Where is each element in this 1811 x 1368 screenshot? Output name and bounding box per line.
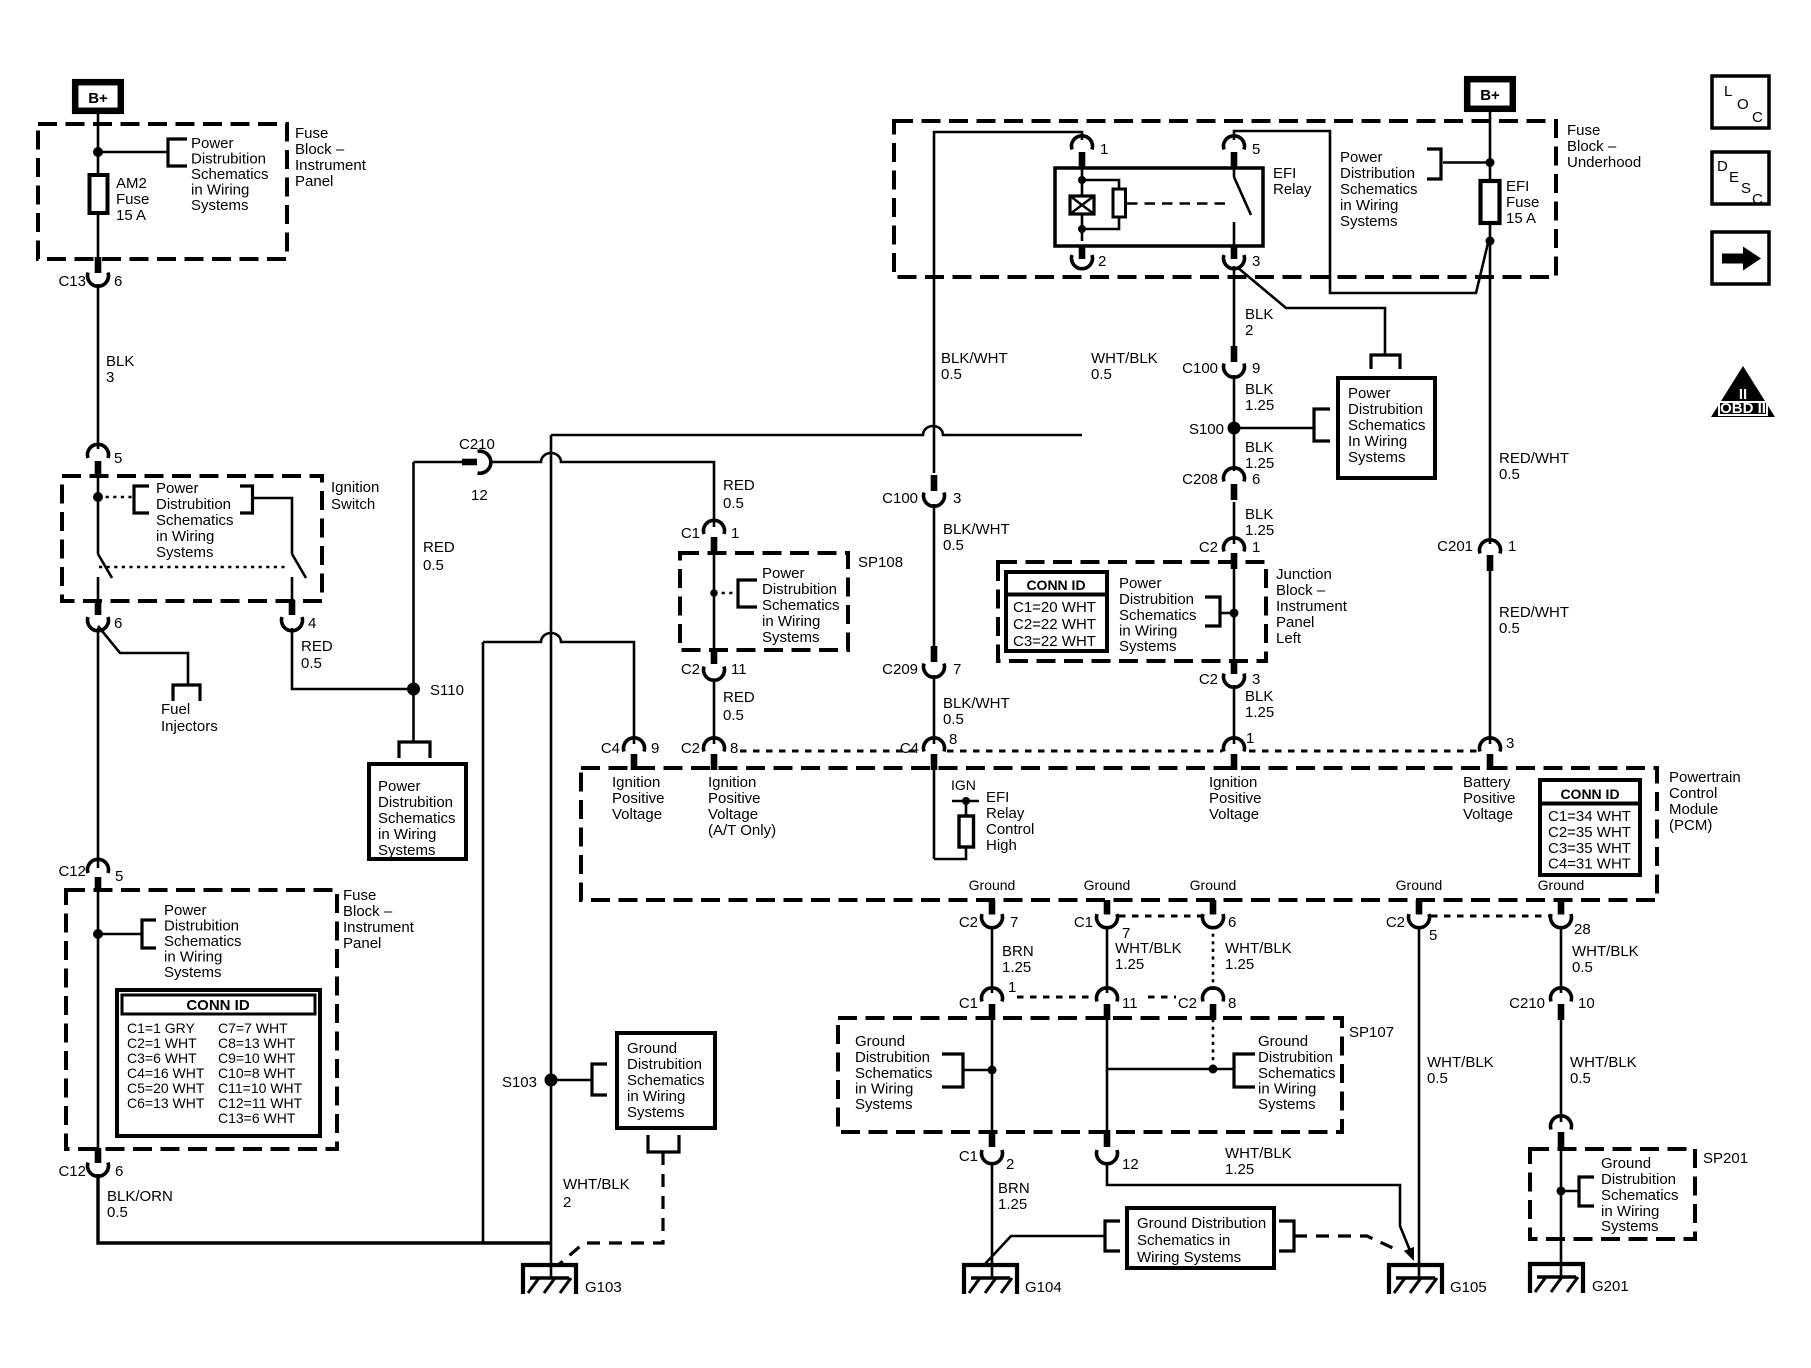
svg-text:Schematics: Schematics	[855, 1065, 933, 1082]
svg-text:EFI: EFI	[986, 789, 1009, 806]
connector tie line	[947, 750, 1222, 753]
svg-text:C2: C2	[959, 914, 978, 931]
svg-text:1.25: 1.25	[1245, 704, 1274, 721]
svg-text:28: 28	[1574, 921, 1591, 938]
connector C2 pin 1 (junction block)	[1199, 538, 1261, 569]
svg-text:C210: C210	[459, 436, 495, 453]
svg-text:Instrument: Instrument	[343, 919, 415, 936]
label: EFI Relay	[1273, 165, 1312, 198]
label: Junction Block - Instrument Panel Left	[1276, 566, 1348, 647]
connector C1 pin 2 (SP107 out)	[959, 1130, 1015, 1173]
wire B+ to fuse block	[97, 113, 100, 152]
svg-text:BLK/WHT: BLK/WHT	[943, 521, 1010, 538]
svg-text:Systems: Systems	[156, 544, 214, 561]
svg-text:0.5: 0.5	[941, 366, 962, 383]
svg-text:Systems: Systems	[1258, 1096, 1316, 1113]
connector pin 6 (ignition switch out)	[88, 600, 123, 632]
connector C2 pin 11 (SP108 out)	[681, 649, 747, 680]
wire WHT/BLK 0.5	[1560, 1020, 1563, 1122]
svg-text:1.25: 1.25	[1115, 956, 1144, 973]
svg-text:RED: RED	[723, 689, 755, 706]
OBD II emblem	[1711, 366, 1775, 417]
svg-text:1: 1	[731, 525, 739, 542]
svg-text:C3=22 WHT: C3=22 WHT	[1013, 633, 1096, 650]
svg-text:15 A: 15 A	[116, 207, 146, 224]
svg-text:BLK/WHT: BLK/WHT	[943, 695, 1010, 712]
connector tie line (SP107 row)	[1017, 996, 1092, 999]
svg-text:1: 1	[1252, 539, 1260, 556]
svg-text:Systems: Systems	[1340, 213, 1398, 230]
node in SP108	[710, 589, 718, 597]
svg-text:High: High	[986, 837, 1017, 854]
svg-text:BLK/ORN: BLK/ORN	[107, 1188, 173, 1205]
svg-text:Voltage: Voltage	[612, 806, 662, 823]
svg-text:EFI: EFI	[1506, 178, 1529, 195]
svg-text:Schematics: Schematics	[1119, 607, 1197, 624]
powertrain control module dashed box	[581, 768, 1657, 900]
connector tie line (ground row)	[1119, 915, 1201, 918]
dotted wire (right leg inside SP107)	[1212, 1019, 1215, 1069]
svg-text:WHT/BLK: WHT/BLK	[1225, 940, 1292, 957]
svg-text:Ignition: Ignition	[331, 479, 379, 496]
svg-text:C210: C210	[1509, 995, 1545, 1012]
svg-text:C3=6 WHT: C3=6 WHT	[127, 1050, 197, 1066]
svg-text:C4: C4	[601, 740, 620, 757]
svg-text:BLK: BLK	[1245, 381, 1273, 398]
svg-text:E: E	[1729, 169, 1739, 186]
svg-text:1.25: 1.25	[1002, 959, 1031, 976]
label: Fuel Injectors	[161, 701, 218, 735]
splice S103	[545, 1074, 558, 1087]
wire pin 12 to G105 with arrow	[1107, 1162, 1411, 1253]
svg-text:BLK: BLK	[1245, 506, 1273, 523]
label: Ignition Positive Voltage (A/T Only) (C2-8)	[708, 774, 776, 839]
svg-text:Systems: Systems	[191, 197, 249, 214]
node inside ignition switch	[93, 492, 103, 502]
node: EFI fuse top junction	[1486, 158, 1495, 167]
wire BLK 1.25	[1233, 502, 1236, 544]
wire node to bracket	[1220, 612, 1234, 615]
CONN ID table (PCM)	[1540, 780, 1640, 875]
svg-text:Control: Control	[1669, 785, 1717, 802]
reference bracket (S100)	[1314, 409, 1330, 441]
svg-text:5: 5	[1429, 927, 1437, 944]
svg-text:C208: C208	[1182, 471, 1218, 488]
svg-text:1.25: 1.25	[1245, 455, 1274, 472]
svg-text:C2: C2	[681, 661, 700, 678]
svg-text:Module: Module	[1669, 801, 1718, 818]
connector tie line (ground row right)	[1431, 915, 1549, 918]
connector pin 5 into ignition switch	[88, 444, 123, 477]
reference box: Ground Distrubition Schematics (S103)	[617, 1033, 715, 1128]
wire top feed to EFI relay pin 2 (hop over BLK/WHT wire)	[551, 426, 1082, 435]
reference box: Ground Distribution Schematics (bottom)	[1127, 1208, 1274, 1268]
wire BLK/WHT 0.5	[933, 675, 936, 744]
svg-text:C5=20 WHT: C5=20 WHT	[127, 1080, 205, 1096]
wire bracket to right switch	[253, 498, 293, 554]
connector relay pin 3	[1224, 245, 1261, 270]
svg-text:C2: C2	[1386, 914, 1405, 931]
svg-text:Power: Power	[1340, 149, 1383, 166]
svg-text:3: 3	[1252, 671, 1260, 688]
svg-text:L: L	[1724, 83, 1732, 100]
svg-text:RED/WHT: RED/WHT	[1499, 604, 1569, 621]
wire BRN 1.25	[991, 926, 994, 993]
svg-text:11: 11	[731, 661, 747, 678]
fuse block - underhood dashed box	[894, 121, 1556, 277]
node inside fuse block	[93, 929, 103, 939]
connector C2 pin 3 (junction block out)	[1199, 660, 1261, 688]
fuse block - instrument panel (bottom) dashed box	[66, 890, 337, 1149]
svg-text:C2: C2	[681, 740, 700, 757]
svg-text:C: C	[1752, 109, 1763, 126]
svg-text:0.5: 0.5	[723, 707, 744, 724]
svg-text:Powertrain: Powertrain	[1669, 769, 1741, 786]
ground G201	[1530, 1264, 1629, 1295]
svg-text:Fuse: Fuse	[343, 887, 376, 904]
svg-text:WHT/BLK: WHT/BLK	[1115, 940, 1182, 957]
svg-text:Systems: Systems	[1348, 449, 1406, 466]
svg-text:15 A: 15 A	[1506, 210, 1536, 227]
connector C1 pin 1 (SP108)	[681, 520, 740, 554]
svg-text:SP107: SP107	[1349, 1024, 1394, 1041]
svg-text:Ignition: Ignition	[1209, 774, 1257, 791]
svg-text:Power: Power	[191, 135, 234, 152]
wire S110 to reference box	[412, 689, 415, 742]
svg-text:3: 3	[106, 369, 114, 386]
wire C210 to SP108 drop (hop over WHT/BLK 2 wire)	[489, 453, 714, 527]
svg-text:in Wiring: in Wiring	[1119, 623, 1177, 640]
splice box SP108 dashed	[680, 553, 848, 650]
svg-text:S103: S103	[502, 1074, 537, 1091]
svg-text:Ground: Ground	[1601, 1155, 1651, 1172]
svg-text:1: 1	[1508, 538, 1516, 555]
fuse EFI 15A	[1481, 178, 1540, 241]
connector C210 pin 10	[1509, 988, 1595, 1020]
svg-text:5: 5	[115, 868, 123, 885]
svg-text:9: 9	[1252, 360, 1260, 377]
svg-text:C13=6 WHT: C13=6 WHT	[218, 1110, 296, 1126]
svg-text:0.5: 0.5	[1091, 366, 1112, 383]
ground G105	[1389, 1265, 1487, 1296]
svg-text:Positive: Positive	[1463, 790, 1516, 807]
relay switch blade	[1234, 168, 1251, 246]
svg-text:Wiring Systems: Wiring Systems	[1137, 1249, 1241, 1266]
dotted link to reference bracket	[98, 496, 134, 499]
svg-text:BLK: BLK	[1245, 688, 1273, 705]
connector C2 pin 7 (PCM ground)	[959, 900, 1019, 931]
svg-text:C: C	[1752, 191, 1763, 208]
wire RED 0.5 label (C1 drop)	[723, 477, 755, 512]
svg-text:C1=34 WHT: C1=34 WHT	[1548, 808, 1631, 825]
svg-text:2: 2	[563, 1194, 571, 1211]
svg-text:Schematics: Schematics	[1258, 1065, 1336, 1082]
reference bracket left (ignition switch)	[134, 486, 149, 513]
svg-text:(PCM): (PCM)	[1669, 817, 1712, 834]
svg-text:WHT/BLK: WHT/BLK	[1572, 943, 1639, 960]
svg-text:Distrubition: Distrubition	[191, 151, 266, 168]
wire through fuse block	[97, 892, 100, 1150]
svg-text:11: 11	[1122, 995, 1138, 1012]
svg-text:C12: C12	[58, 863, 86, 880]
svg-text:12: 12	[471, 487, 488, 504]
svg-text:in Wiring: in Wiring	[378, 826, 436, 843]
svg-text:C4: C4	[900, 740, 919, 757]
ground G104	[964, 1265, 1062, 1296]
svg-text:WHT/BLK: WHT/BLK	[563, 1176, 630, 1193]
CONN ID table (junction block)	[1006, 572, 1107, 651]
label: Fuse Block - Instrument Panel	[295, 125, 367, 190]
svg-text:Systems: Systems	[762, 629, 820, 646]
relay coil assembly	[1070, 168, 1126, 241]
svg-text:0.5: 0.5	[423, 557, 444, 574]
reference bracket (fuse block IP bottom)	[142, 920, 156, 948]
svg-text:5: 5	[1252, 141, 1260, 158]
svg-text:BLK: BLK	[1245, 439, 1273, 456]
reference bracket (fuse block IP top)	[168, 139, 187, 166]
wire into switch	[97, 477, 100, 554]
wire BLK/ORN 0.5	[107, 1188, 173, 1221]
svg-text:Junction: Junction	[1276, 566, 1332, 583]
svg-text:C3=35 WHT: C3=35 WHT	[1548, 840, 1631, 857]
wire ignition feed horizontal (hop over WHT/BLK 2)	[483, 633, 634, 744]
PCM internal IGN node and pull-up	[934, 770, 979, 859]
svg-text:C12: C12	[58, 1163, 86, 1180]
connector C210 pin 12	[459, 436, 495, 504]
wire bottom box to G104	[984, 1236, 1105, 1265]
svg-text:BLK: BLK	[1245, 306, 1273, 323]
reference bracket (SP201)	[1579, 1177, 1594, 1206]
svg-text:RED: RED	[723, 477, 755, 494]
svg-text:C209: C209	[882, 661, 918, 678]
svg-text:Block –: Block –	[295, 141, 345, 158]
svg-text:C2: C2	[1199, 539, 1218, 556]
connector PCM pin 1	[1224, 730, 1255, 770]
svg-text:C1=1 GRY: C1=1 GRY	[127, 1020, 195, 1036]
wire B+ down to fuse	[1489, 110, 1492, 181]
wire relay pin 5 feed	[1234, 131, 1488, 293]
svg-text:SP108: SP108	[858, 554, 903, 571]
svg-text:Schematics in: Schematics in	[1137, 1232, 1230, 1249]
svg-text:C1=20 WHT: C1=20 WHT	[1013, 599, 1096, 616]
svg-text:Block –: Block –	[1276, 582, 1326, 599]
connector pin 6 (PCM ground)	[1203, 900, 1237, 931]
wire WHT/BLK 1.25 label (pin 12)	[1225, 1145, 1292, 1178]
svg-text:G104: G104	[1025, 1279, 1062, 1296]
svg-text:Fuse: Fuse	[116, 191, 149, 208]
dashed link to ground G103	[557, 1152, 663, 1266]
connector PCM pin 3	[1480, 735, 1515, 770]
svg-text:C12=11 WHT: C12=11 WHT	[218, 1095, 303, 1111]
svg-text:1.25: 1.25	[1245, 522, 1274, 539]
svg-text:BRN: BRN	[1002, 943, 1034, 960]
svg-text:Schematics: Schematics	[378, 810, 456, 827]
wire WHT/BLK 1.25	[1106, 926, 1109, 993]
svg-text:C11=10 WHT: C11=10 WHT	[218, 1080, 303, 1096]
svg-text:3: 3	[953, 490, 961, 507]
svg-text:4: 4	[308, 615, 316, 632]
svg-text:Panel: Panel	[1276, 614, 1314, 631]
svg-text:Distrubition: Distrubition	[1258, 1049, 1333, 1066]
wire RED 0.5 from pin 4	[292, 628, 413, 689]
svg-text:C10=8 WHT: C10=8 WHT	[218, 1065, 296, 1081]
label: Fuse Block - Instrument Panel (bottom)	[343, 887, 415, 952]
connector C2 pin 5 (PCM ground)	[1386, 900, 1438, 944]
wire S110 riser (RED 0.5)	[412, 462, 415, 689]
svg-text:CONN ID: CONN ID	[1026, 577, 1085, 593]
switch blade right	[292, 554, 306, 578]
svg-text:Systems: Systems	[855, 1096, 913, 1113]
dotted link to bracket (SP108)	[714, 592, 738, 595]
svg-text:SP201: SP201	[1703, 1150, 1748, 1167]
svg-text:in Wiring: in Wiring	[1258, 1081, 1316, 1098]
reference box: Power Distrubition Schematics (S100)	[1338, 378, 1435, 478]
svg-text:Schematics: Schematics	[164, 933, 242, 950]
svg-text:8: 8	[1228, 995, 1236, 1012]
svg-text:Block –: Block –	[343, 903, 393, 920]
svg-text:C1: C1	[959, 1148, 978, 1165]
connector into SP201	[1551, 1116, 1572, 1150]
svg-text:Systems: Systems	[1119, 638, 1177, 655]
svg-text:1.25: 1.25	[998, 1196, 1027, 1213]
svg-text:O: O	[1737, 96, 1749, 113]
svg-text:Systems: Systems	[164, 964, 222, 981]
bracket above S100 reference box	[1371, 355, 1400, 369]
svg-text:Ignition: Ignition	[612, 774, 660, 791]
svg-text:RED: RED	[301, 638, 333, 655]
svg-text:S100: S100	[1189, 421, 1224, 438]
svg-text:6: 6	[115, 1163, 123, 1180]
wire node to bracket	[1561, 1190, 1579, 1193]
svg-text:Ground Distribution: Ground Distribution	[1137, 1215, 1266, 1232]
wire pin 3 diagonal to S100 reference	[1237, 267, 1385, 355]
svg-text:Distrubition: Distrubition	[855, 1049, 930, 1066]
svg-text:3: 3	[1506, 735, 1514, 752]
svg-text:7: 7	[953, 661, 961, 678]
wire pin 3 to BLK 2 drop	[1233, 266, 1236, 347]
svg-text:Distrubition: Distrubition	[164, 918, 239, 935]
svg-text:C1: C1	[1074, 914, 1093, 931]
connector C100 pin 3	[882, 475, 961, 507]
svg-text:Power: Power	[1348, 385, 1391, 402]
svg-text:Control: Control	[986, 821, 1034, 838]
svg-text:S: S	[1741, 180, 1751, 197]
svg-text:1: 1	[1246, 730, 1254, 747]
svg-text:Ground: Ground	[1538, 877, 1585, 893]
svg-text:C100: C100	[882, 490, 918, 507]
connector C13 pin 6	[58, 257, 122, 290]
svg-text:0.5: 0.5	[1572, 959, 1593, 976]
svg-text:Systems: Systems	[378, 842, 436, 859]
next-page arrow box	[1712, 232, 1769, 284]
bracket above reference box	[399, 742, 430, 758]
node: B+ feed junction	[93, 147, 103, 157]
svg-text:in Wiring: in Wiring	[164, 949, 222, 966]
wire BLK 1.25	[1233, 375, 1236, 471]
svg-text:RED: RED	[423, 539, 455, 556]
svg-text:6: 6	[114, 615, 122, 632]
label: Battery Positive Voltage (pin 3)	[1463, 774, 1516, 823]
svg-text:Left: Left	[1276, 630, 1302, 647]
svg-text:Schematics: Schematics	[156, 512, 234, 529]
node SP107 left	[988, 1066, 997, 1075]
wire WHT/BLK 0.5 to G105	[1418, 926, 1421, 1278]
reference bracket (SP107 right)	[1234, 1054, 1255, 1087]
svg-text:Ground: Ground	[627, 1040, 677, 1057]
wire RED/WHT 0.5 (EFI fuse to C201)	[1489, 241, 1492, 544]
svg-text:Ground: Ground	[1190, 877, 1237, 893]
svg-text:Schematics: Schematics	[1601, 1187, 1679, 1204]
svg-text:Schematics: Schematics	[627, 1072, 705, 1089]
svg-text:Fuse: Fuse	[1506, 194, 1539, 211]
splice S110	[407, 683, 420, 696]
svg-text:C2=1 WHT: C2=1 WHT	[127, 1035, 197, 1051]
svg-text:G201: G201	[1592, 1278, 1629, 1295]
svg-text:Panel: Panel	[295, 173, 333, 190]
svg-text:OBD II: OBD II	[1720, 400, 1766, 417]
svg-text:IGN: IGN	[951, 777, 976, 793]
svg-text:C4=31 WHT: C4=31 WHT	[1548, 856, 1631, 873]
svg-text:Distrubition: Distrubition	[1119, 591, 1194, 608]
svg-text:3: 3	[1252, 253, 1260, 270]
svg-text:Fuse: Fuse	[295, 125, 328, 142]
svg-text:C2: C2	[1199, 671, 1218, 688]
connector C201 pin 1	[1437, 538, 1516, 571]
svg-text:EFI: EFI	[1273, 165, 1296, 182]
svg-text:in Wiring: in Wiring	[855, 1081, 913, 1098]
connector pin 4 (ignition switch out)	[282, 600, 317, 632]
connector C1 pin 7 (PCM ground)	[1074, 900, 1131, 942]
connector pin 11 (SP107)	[1097, 988, 1138, 1020]
svg-text:0.5: 0.5	[1427, 1070, 1448, 1087]
svg-text:0.5: 0.5	[943, 711, 964, 728]
svg-text:Ground: Ground	[1396, 877, 1443, 893]
wire BLK/WHT 0.5 label (pin1 loop)	[941, 350, 1008, 383]
label: Powertrain Control Module (PCM)	[1669, 769, 1741, 834]
svg-text:Distribution: Distribution	[1340, 165, 1415, 182]
reference bracket right (ignition switch)	[240, 486, 253, 513]
wire BLK/WHT 0.5	[933, 504, 936, 647]
node: EFI fuse bottom junction	[1486, 237, 1495, 246]
EFI relay box	[1055, 168, 1263, 246]
connector tie line	[1249, 750, 1477, 753]
wire S103 to bracket	[551, 1079, 592, 1082]
labels: Ground row	[969, 877, 1585, 893]
svg-text:8: 8	[949, 731, 957, 748]
svg-text:(A/T Only): (A/T Only)	[708, 822, 776, 839]
svg-text:C2=35 WHT: C2=35 WHT	[1548, 824, 1631, 841]
reference bracket (fuse block UH)	[1427, 149, 1441, 179]
dashed link to G105	[1294, 1236, 1397, 1250]
connector pin 28 (PCM ground)	[1551, 900, 1591, 938]
wire cross link in SP107	[1107, 1068, 1234, 1071]
wire through SP107 (mid leg)	[1106, 1019, 1109, 1132]
label: Ignition Positive Voltage (pin 1)	[1209, 774, 1262, 823]
svg-text:AM2: AM2	[116, 175, 147, 192]
svg-text:Power: Power	[156, 480, 199, 497]
svg-text:0.5: 0.5	[943, 537, 964, 554]
svg-text:Instrument: Instrument	[1276, 598, 1348, 615]
svg-text:Distrubition: Distrubition	[156, 496, 231, 513]
svg-text:5: 5	[114, 450, 122, 467]
node SP201	[1557, 1187, 1566, 1196]
svg-text:10: 10	[1578, 995, 1595, 1012]
svg-text:Ground: Ground	[855, 1033, 905, 1050]
svg-text:1.25: 1.25	[1245, 397, 1274, 414]
connector C4 pin 8 (PCM)	[900, 731, 958, 770]
reference bracket (bottom box left)	[1105, 1221, 1120, 1251]
label: Ignition Positive Voltage (C4-9)	[612, 774, 665, 823]
